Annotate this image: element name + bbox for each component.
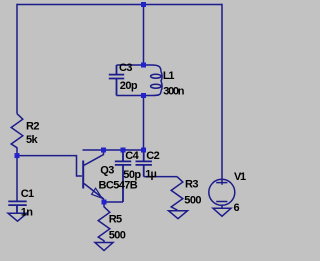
svg-text:R5: R5: [109, 214, 122, 226]
wire collector rail y=150: [83, 149, 144, 151]
inductor L1: [151, 65, 163, 96]
svg-text:C3: C3: [119, 62, 132, 74]
capacitor C4: [115, 150, 131, 202]
voltage source V1: [209, 179, 235, 208]
node tank top: [141, 63, 146, 68]
svg-text:6: 6: [234, 202, 240, 214]
node C4 top: [121, 148, 126, 153]
resistor R2: [11, 114, 23, 156]
node tank bottom: [141, 93, 146, 98]
wire C2 bottom to R3: [144, 176, 177, 178]
capacitor C3: [109, 65, 124, 96]
transistor Q3: [83, 150, 103, 202]
wire right rail to V1: [221, 4, 223, 185]
capacitor C2: [136, 150, 152, 177]
ground below R3: [169, 211, 188, 219]
wire C4 bottom to emitter node: [104, 201, 123, 203]
wire tank top from rail: [143, 5, 145, 66]
resistor R3: [171, 177, 183, 211]
svg-text:R3: R3: [185, 178, 198, 190]
svg-text:500: 500: [184, 195, 201, 207]
svg-text:R2: R2: [26, 120, 39, 132]
svg-text:20p: 20p: [120, 80, 138, 92]
wire top rail: [17, 4, 222, 6]
ground below C1: [8, 213, 27, 221]
svg-text:C2: C2: [146, 150, 159, 162]
svg-text:500: 500: [109, 230, 126, 242]
node base/R2/C1: [15, 153, 20, 158]
svg-text:1n: 1n: [21, 207, 34, 219]
node emitter/R5/C4: [102, 200, 107, 205]
svg-text:L1: L1: [163, 70, 175, 82]
node C2 top: [141, 148, 146, 153]
wire tank bottom drop to C2/C4 rail: [143, 96, 145, 151]
svg-text:50p: 50p: [123, 169, 141, 181]
resistor R5: [98, 202, 110, 242]
wire tank top rail: [117, 64, 153, 66]
wire R2 junction to C1: [16, 156, 18, 201]
svg-text:C4: C4: [125, 150, 139, 162]
ground below R5: [95, 243, 113, 251]
wire left drop to R2: [16, 4, 18, 114]
node top rail / tank: [141, 2, 146, 7]
svg-text:300n: 300n: [163, 85, 184, 97]
svg-text:1µ: 1µ: [145, 169, 156, 181]
wire tank bottom rail: [117, 95, 153, 97]
svg-text:V1: V1: [234, 171, 246, 183]
ground below V1: [213, 208, 231, 216]
svg-text:Q3: Q3: [100, 165, 114, 177]
svg-text:BC547B: BC547B: [99, 180, 138, 192]
svg-text:C1: C1: [21, 188, 34, 200]
svg-text:5k: 5k: [26, 134, 39, 146]
wire base net from R2 junction to Q3 base: [17, 156, 82, 176]
node collector: [101, 148, 106, 153]
capacitor C1: [8, 201, 26, 213]
